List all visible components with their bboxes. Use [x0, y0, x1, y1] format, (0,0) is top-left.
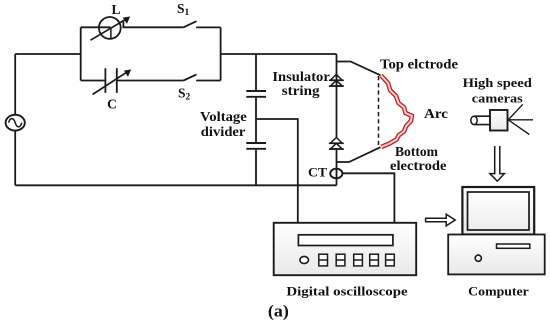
wire insulator column top — [336, 54, 338, 75]
wire insulator column middle — [336, 75, 338, 138]
camera body — [490, 110, 508, 131]
computer monitor — [462, 187, 534, 235]
wire CT to oscilloscope — [342, 173, 394, 223]
wire parallel block right vertical — [220, 27, 222, 80]
svg-text:cameras: cameras — [472, 92, 523, 106]
insulator string upper discs — [329, 74, 344, 86]
inductor L (variable) — [91, 16, 131, 40]
computer system unit — [448, 235, 545, 275]
svg-text:(a): (a) — [268, 301, 289, 320]
wire bottom rail — [15, 184, 336, 186]
svg-text:Top elctrode: Top elctrode — [380, 56, 458, 71]
wire top rail to parallel block — [15, 53, 81, 55]
wire insulator column to CT — [336, 149, 338, 169]
svg-text:Arc: Arc — [424, 107, 448, 122]
svg-text:string: string — [282, 83, 320, 98]
svg-text:Bottom: Bottom — [395, 144, 439, 159]
switch S2 — [184, 74, 221, 80]
wire voltage divider column middle — [255, 98, 257, 142]
camera lens tube — [471, 116, 490, 124]
capacitor divider upper — [246, 91, 266, 97]
capacitor C (variable) — [93, 68, 132, 94]
wire bottom branch to switch S2 — [117, 80, 184, 82]
wire output rail to insulator column — [221, 53, 337, 55]
svg-text:L: L — [111, 2, 120, 17]
wire bottom branch left segment — [81, 80, 106, 82]
oscilloscope box — [274, 223, 417, 275]
wire parallel block left vertical — [80, 27, 82, 80]
arrow down camera to computer — [490, 146, 505, 181]
svg-text:Voltage: Voltage — [200, 109, 247, 124]
insulator string lower discs — [329, 137, 344, 149]
svg-text:electrode: electrode — [390, 158, 447, 173]
camera view rays — [508, 104, 533, 134]
arc (red) — [381, 76, 412, 148]
svg-text:CT: CT — [308, 165, 327, 180]
svg-text:Computer: Computer — [468, 283, 529, 298]
wire left vertical from top rail to bottom rail through source — [14, 54, 16, 185]
dashed gap line — [378, 76, 380, 147]
svg-text:Insulator: Insulator — [272, 69, 329, 84]
wire voltage divider column upper — [255, 54, 257, 90]
wire divider tap to oscilloscope — [256, 119, 298, 223]
svg-text:divider: divider — [201, 124, 246, 139]
switch S1 — [184, 21, 221, 27]
svg-text:C: C — [107, 96, 117, 111]
top electrode lead — [337, 62, 381, 76]
svg-text:High speed: High speed — [463, 76, 532, 90]
CT transformer circle — [330, 169, 342, 179]
AC source G1 — [6, 115, 25, 131]
arrow right oscilloscope to computer — [426, 214, 456, 226]
oscilloscope buttons — [319, 254, 395, 266]
capacitor divider lower — [246, 143, 266, 149]
svg-text:Digital oscilloscope: Digital oscilloscope — [286, 283, 407, 298]
wire top branch to switch S1 — [81, 22, 184, 28]
wire through CT to bottom rail — [336, 169, 338, 186]
wire voltage divider column lower — [255, 150, 257, 186]
bottom electrode lead — [337, 147, 381, 162]
